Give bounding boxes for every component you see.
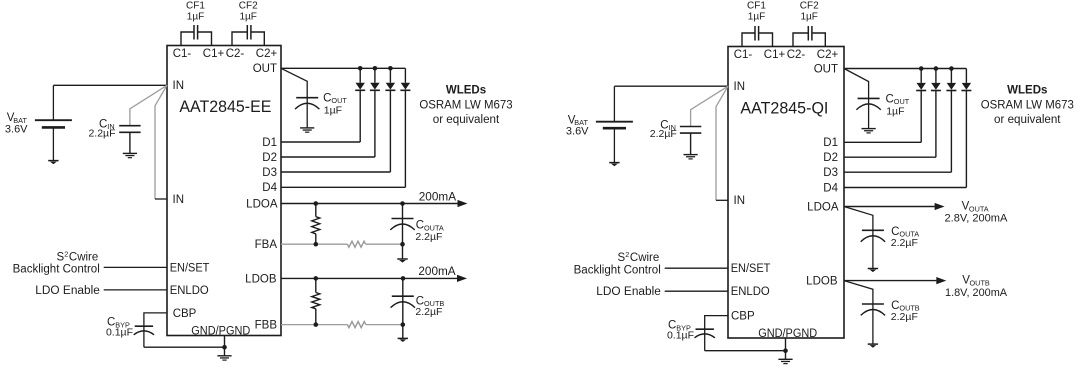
capacitor CF2 1uF flying cap (793, 33, 808, 47)
LED WLED3 (950, 69, 952, 83)
arrow VOUTA (935, 203, 945, 210)
svg-text:AAT2845-QI: AAT2845-QI (740, 98, 828, 117)
svg-text:S: S (618, 252, 626, 264)
svg-text:Cwire: Cwire (630, 252, 659, 264)
capacitor CF1 1uF flying cap (181, 32, 194, 46)
svg-text:C1+: C1+ (764, 49, 786, 61)
ground arrow at VBAT (48, 160, 58, 162)
svg-text:IN: IN (734, 81, 746, 93)
wire CBYP to GND node (705, 350, 786, 352)
junction GND node (783, 348, 788, 353)
op-amp U1 IC AAT2845-EE box (167, 46, 281, 336)
junction dots FBA (314, 242, 319, 247)
LED WLED4 (404, 68, 406, 82)
resistor RB2 (FBB-GND) (347, 322, 365, 328)
svg-text:0.1µF: 0.1µF (667, 329, 694, 341)
wire LDOB output 200mA (281, 277, 457, 279)
capacitor COUTB 2.2uF (402, 278, 404, 324)
wire stub IN mid (155, 198, 167, 200)
svg-text:D3: D3 (823, 167, 838, 179)
junction dots LDOA (314, 201, 319, 206)
svg-text:FBA: FBA (255, 239, 278, 251)
capacitor CIN 2.2uF (680, 126, 701, 128)
capacitor COUT 1uF (858, 97, 880, 99)
wire GND/PGND to ground (785, 338, 787, 351)
ground arrow at VBAT (609, 162, 619, 164)
wire stub IN mid (716, 199, 728, 201)
svg-text:1.8V, 200mA: 1.8V, 200mA (945, 287, 1008, 299)
svg-text:S: S (57, 251, 65, 263)
svg-text:C2+: C2+ (256, 48, 278, 60)
wire COUTA to ground (402, 244, 404, 259)
svg-text:or equivalent: or equivalent (433, 114, 500, 126)
svg-text:2.2µF: 2.2µF (891, 311, 918, 323)
left schematic AAT2845-EE (5, 1, 513, 361)
svg-text:IN: IN (173, 80, 185, 92)
svg-text:CF1: CF1 (186, 1, 205, 12)
svg-text:ENLDO: ENLDO (170, 285, 209, 297)
right schematic AAT2845-QI (566, 1, 1074, 364)
wire D4 (281, 186, 405, 188)
wire IN to CIN (gray) (691, 86, 728, 126)
ground arrow at COUTB (right) (868, 343, 878, 345)
capacitor COUT 1uF (296, 97, 318, 99)
svg-text:C2-: C2- (787, 49, 806, 61)
capacitor CBYP 0.1uF (696, 328, 714, 330)
svg-text:2.2µF: 2.2µF (650, 128, 677, 140)
svg-text:D4: D4 (823, 182, 838, 194)
svg-text:2.2µF: 2.2µF (415, 231, 442, 243)
svg-text:0.1µF: 0.1µF (106, 326, 133, 338)
capacitor COUTB 2.2uF (right) (862, 303, 884, 305)
wire FBA to COUTA node (gray) (366, 243, 403, 245)
junction dots on OUT rail (358, 66, 363, 71)
resistor RA2 (FBA-GND) (347, 241, 365, 247)
svg-text:GND/PGND: GND/PGND (191, 326, 250, 338)
svg-text:or equivalent: or equivalent (994, 114, 1061, 126)
svg-text:FBB: FBB (255, 320, 278, 332)
LED WLED2 (374, 68, 376, 82)
svg-text:2.2µF: 2.2µF (415, 306, 442, 318)
wire LDOB output (844, 280, 936, 282)
svg-text:LDOB: LDOB (806, 276, 838, 288)
wire FBA (gray) (281, 243, 347, 245)
svg-text:D1: D1 (262, 137, 277, 149)
battery VBAT 3.6V (614, 85, 728, 87)
svg-text:C2-: C2- (226, 48, 245, 60)
LED WLED3 (389, 68, 391, 82)
wire IN to IN mid (gray) (155, 85, 167, 199)
svg-text:D2: D2 (823, 152, 838, 164)
svg-text:1µF: 1µF (187, 11, 204, 22)
ground at COUT (300, 127, 314, 129)
arrow LDOB 200mA (457, 275, 467, 282)
wire D4 (844, 187, 966, 189)
svg-text:Backlight Control: Backlight Control (574, 264, 661, 276)
capacitor CF2 1uF flying cap (232, 32, 247, 46)
svg-text:1µF: 1µF (886, 105, 904, 117)
svg-text:3.6V: 3.6V (5, 123, 28, 135)
junction dots on OUT rail (919, 66, 924, 71)
LED WLED4 (965, 69, 967, 83)
capacitor COUTA 2.2uF (402, 204, 404, 245)
wire ENLDO control (665, 290, 728, 292)
LED WLED2 (935, 69, 937, 83)
wire D3 (281, 171, 390, 173)
wire D2 (844, 156, 936, 158)
svg-text:1µF: 1µF (800, 11, 817, 22)
wire CBYP to GND node (144, 346, 225, 348)
svg-text:LDOA: LDOA (246, 198, 278, 210)
svg-text:OSRAM LW M673: OSRAM LW M673 (419, 99, 512, 111)
LED WLED1 (920, 69, 922, 83)
wire OUT rail (844, 68, 966, 70)
svg-text:CBP: CBP (731, 311, 755, 323)
wire ENLDO control (104, 289, 167, 291)
svg-text:C1-: C1- (734, 49, 753, 61)
svg-text:EN/SET: EN/SET (170, 262, 210, 274)
wire LDOA output 200mA (281, 203, 458, 205)
wire D3 (844, 171, 951, 173)
wire CBP to CBYP (144, 313, 167, 347)
svg-text:OSRAM LW M673: OSRAM LW M673 (981, 99, 1074, 111)
wire OUT to COUT (844, 69, 869, 129)
junction dots LDOB (314, 276, 319, 281)
capacitor CBYP 0.1uF (135, 325, 153, 327)
wire D1 (844, 141, 921, 143)
LED WLED1 (359, 68, 361, 82)
op-amp U2 IC AAT2845-QI box (728, 47, 844, 339)
ground at CIN (684, 154, 698, 156)
svg-text:2.8V, 200mA: 2.8V, 200mA (945, 213, 1009, 225)
svg-text:IN: IN (173, 194, 185, 206)
svg-text:CF2: CF2 (239, 1, 258, 12)
arrow VOUTB (936, 277, 946, 284)
wire EN/SET control (665, 267, 728, 269)
svg-text:C1+: C1+ (203, 48, 225, 60)
svg-text:OUT: OUT (814, 63, 838, 75)
svg-text:C: C (323, 93, 331, 105)
ground arrow at COUTA (right) (868, 268, 878, 270)
wire COUTB to ground (402, 325, 404, 339)
wire EN/SET control (104, 266, 167, 268)
svg-text:GND/PGND: GND/PGND (758, 328, 817, 340)
svg-text:LDOA: LDOA (807, 201, 839, 213)
ground arrow at COUTB (398, 337, 408, 339)
svg-text:AAT2845-EE: AAT2845-EE (179, 97, 271, 116)
svg-text:200mA: 200mA (418, 266, 456, 278)
svg-text:Cwire: Cwire (69, 251, 98, 263)
wire FBB (gray) (281, 324, 347, 326)
wire FBB to COUTB node (gray) (366, 324, 403, 326)
svg-text:LDOB: LDOB (245, 273, 277, 285)
svg-text:D2: D2 (262, 152, 277, 164)
wire LDOB to COUTB (844, 281, 873, 344)
svg-text:3.6V: 3.6V (566, 126, 589, 138)
wire D1 (281, 141, 360, 143)
svg-text:LDO Enable: LDO Enable (596, 286, 661, 298)
capacitor CF1 1uF flying cap (742, 33, 755, 47)
wire LDOA output (844, 206, 935, 208)
svg-text:C1-: C1- (173, 48, 192, 60)
resistor RA1 (LDOA-FBA) (315, 204, 317, 217)
wire IN to IN mid (gray) (716, 86, 728, 200)
svg-text:1µF: 1µF (239, 11, 256, 22)
svg-text:EN/SET: EN/SET (731, 263, 771, 275)
arrow LDOA 200mA (458, 200, 468, 207)
ground at GND/PGND (217, 355, 231, 357)
svg-text:WLEDs: WLEDs (1007, 85, 1047, 97)
battery VBAT 3.6V (53, 84, 167, 86)
svg-text:2: 2 (64, 249, 68, 258)
svg-text:2.2µF: 2.2µF (88, 127, 115, 139)
svg-text:D3: D3 (262, 167, 277, 179)
svg-text:CF2: CF2 (800, 1, 819, 12)
svg-text:ENLDO: ENLDO (731, 286, 770, 298)
wire LDOA to COUTA (844, 207, 873, 269)
junction dots FBB (314, 322, 319, 327)
svg-text:1µF: 1µF (748, 11, 765, 22)
svg-text:D1: D1 (823, 137, 838, 149)
ground at GND/PGND (778, 358, 792, 360)
wire GND/PGND to ground (224, 336, 226, 348)
svg-text:C2+: C2+ (817, 49, 839, 61)
svg-text:1µF: 1µF (324, 105, 342, 117)
svg-text:OUT: OUT (253, 63, 277, 75)
svg-text:2: 2 (625, 250, 629, 259)
wire IN to CIN (gray) (130, 85, 167, 125)
svg-text:2.2µF: 2.2µF (891, 237, 918, 249)
svg-text:200mA: 200mA (419, 192, 457, 204)
svg-text:CBP: CBP (173, 308, 197, 320)
svg-text:CF1: CF1 (747, 1, 766, 12)
junction GND node (222, 345, 227, 350)
ground at CIN (123, 152, 137, 154)
svg-text:C: C (886, 93, 894, 105)
svg-text:D4: D4 (262, 182, 277, 194)
ground at COUT (862, 128, 876, 130)
wire OUT rail (281, 67, 405, 69)
capacitor COUTA 2.2uF (right) (862, 229, 884, 231)
svg-text:WLEDs: WLEDs (446, 85, 486, 97)
capacitor CIN 2.2uF (119, 125, 140, 127)
svg-text:Backlight Control: Backlight Control (13, 264, 100, 276)
svg-text:LDO Enable: LDO Enable (35, 285, 100, 297)
wire CBP to CBYP (705, 316, 728, 351)
resistor RB1 (LDOB-FBB) (315, 278, 317, 292)
ground arrow at COUTA (397, 258, 407, 260)
wire OUT to COUT (281, 68, 307, 128)
svg-text:IN: IN (734, 195, 746, 207)
wire D2 (281, 156, 375, 158)
